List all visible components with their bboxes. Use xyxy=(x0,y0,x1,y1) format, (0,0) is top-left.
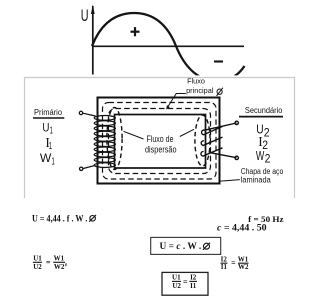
svg-text:2: 2 xyxy=(265,152,271,166)
svg-text:f = 50 Hz: f = 50 Hz xyxy=(248,215,284,224)
svg-text:I1: I1 xyxy=(190,282,197,290)
svg-text:c = 4,44 . 50: c = 4,44 . 50 xyxy=(217,224,267,234)
svg-text:W2: W2 xyxy=(54,263,65,271)
svg-text:Primário: Primário xyxy=(34,108,63,117)
svg-text:Secundário: Secundário xyxy=(245,106,283,115)
svg-text:W1: W1 xyxy=(54,254,65,262)
svg-text:Fluxo: Fluxo xyxy=(187,79,205,86)
svg-text:1: 1 xyxy=(52,156,55,167)
svg-text:U = c . W .: U = c . W . xyxy=(160,242,202,252)
svg-text:principal: principal xyxy=(186,86,214,95)
svg-text:U: U xyxy=(81,6,89,25)
svg-text:=: = xyxy=(183,277,188,286)
svg-text:U1: U1 xyxy=(172,274,181,282)
svg-text:I1: I1 xyxy=(221,263,228,271)
svg-text:U1: U1 xyxy=(33,254,42,262)
svg-text:1: 1 xyxy=(50,125,53,136)
svg-text:W2: W2 xyxy=(238,263,249,271)
svg-text:U = 4,44 . f . W .: U = 4,44 . f . W . xyxy=(32,213,87,224)
svg-text:Fluxo de: Fluxo de xyxy=(147,134,174,144)
svg-text:U: U xyxy=(42,121,49,135)
svg-text:laminada: laminada xyxy=(241,175,272,184)
svg-text:U2: U2 xyxy=(172,282,181,290)
svg-text:W: W xyxy=(40,151,52,165)
svg-text:W1: W1 xyxy=(238,255,249,263)
svg-text:=: = xyxy=(231,258,236,267)
svg-text:I2: I2 xyxy=(190,274,197,282)
svg-text:I2: I2 xyxy=(221,255,228,263)
svg-text:U2: U2 xyxy=(33,263,42,271)
svg-text:=: = xyxy=(46,258,51,267)
svg-text:W: W xyxy=(256,149,264,163)
svg-text:dispersão: dispersão xyxy=(145,144,177,154)
